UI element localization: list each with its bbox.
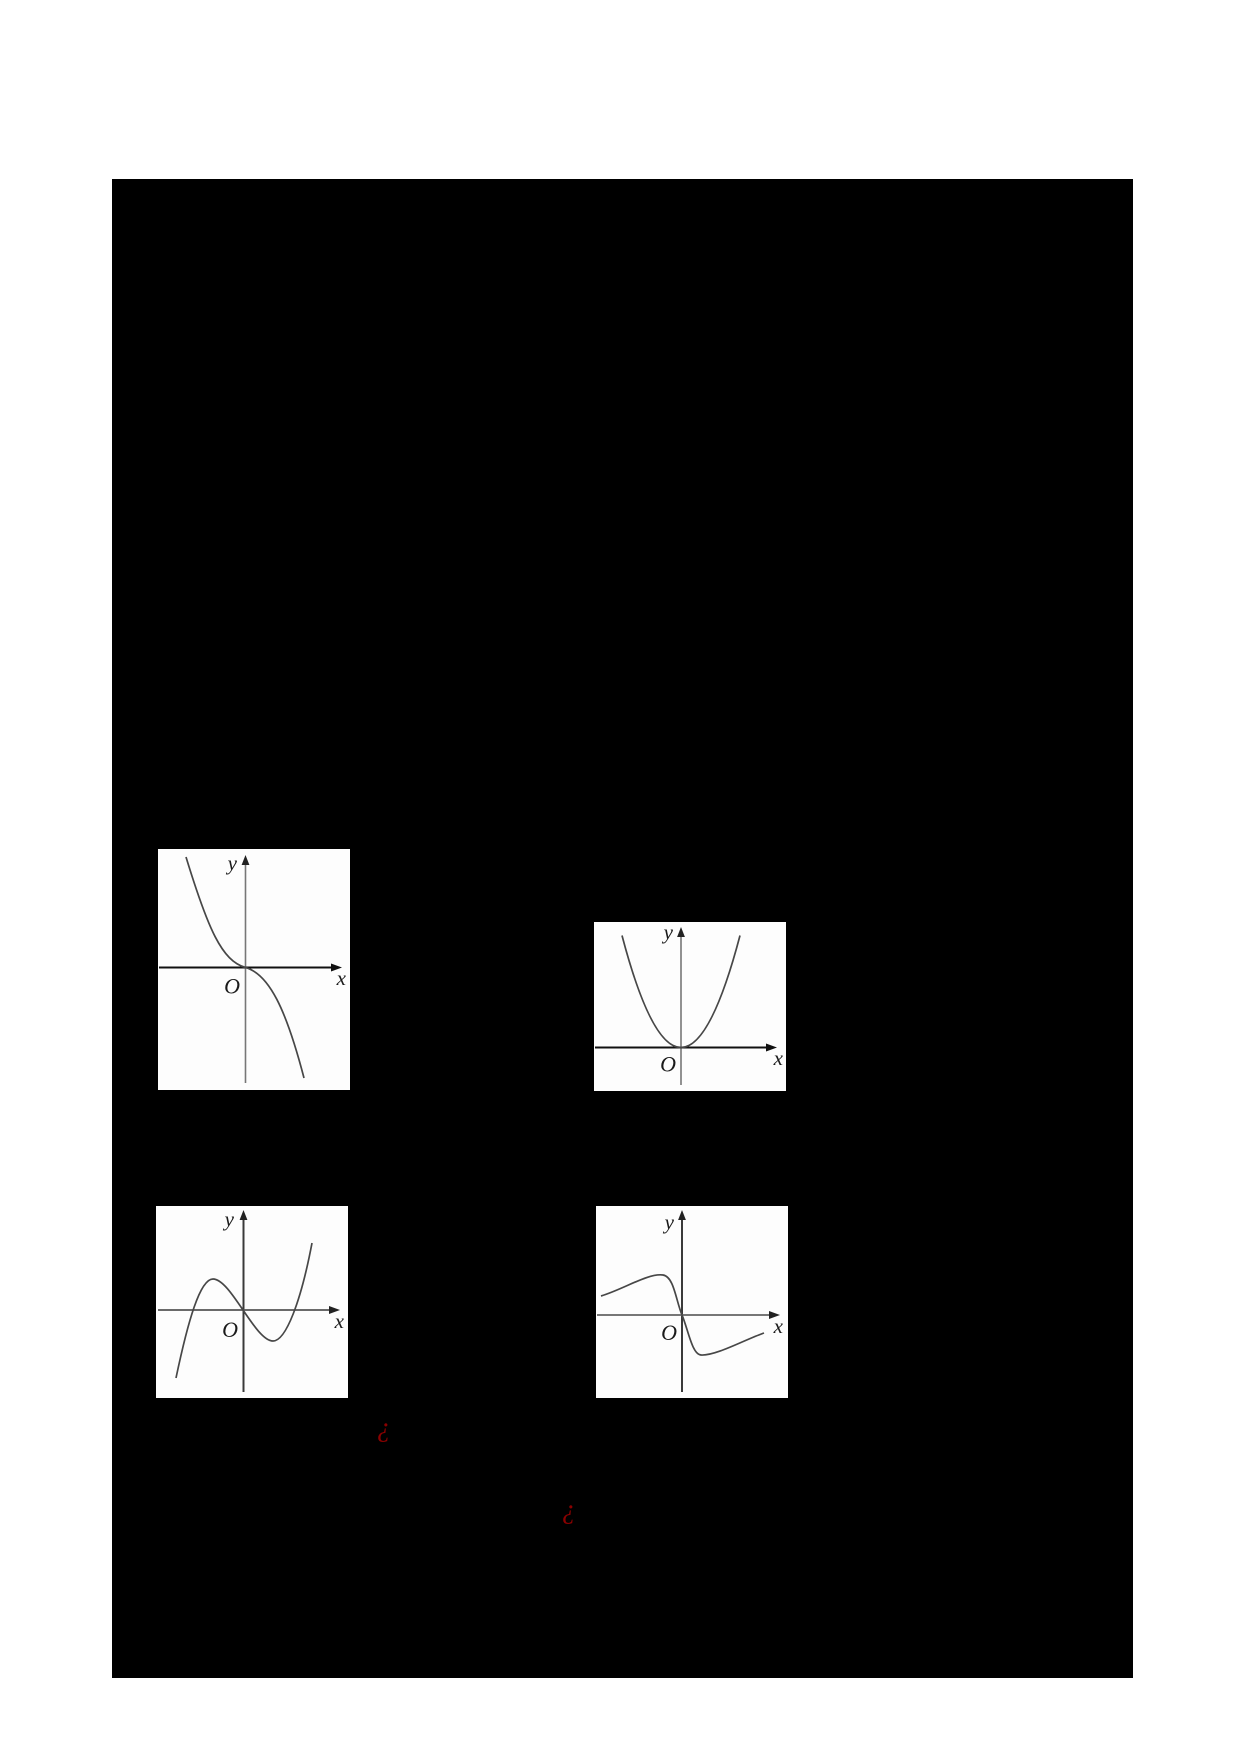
red inverted question mark 1	[377, 1413, 399, 1441]
curve	[601, 1275, 764, 1355]
graph panel A (top-left): y = -x^3 style curve	[158, 849, 350, 1090]
svg-text:x: x	[773, 1314, 784, 1338]
graph panel D (bottom-right): odd sigmoid-like curve	[596, 1206, 788, 1398]
svg-text:x: x	[334, 1309, 345, 1333]
curve	[186, 857, 304, 1078]
x-axis	[159, 967, 336, 969]
y-axis	[243, 1216, 245, 1392]
x-axis	[158, 1309, 334, 1311]
svg-text:O: O	[660, 1052, 676, 1077]
curve	[622, 936, 740, 1048]
graph panel C (bottom-left): cubic y = x^3 - x	[156, 1206, 348, 1398]
y-axis	[245, 861, 247, 1083]
svg-text:O: O	[222, 1317, 238, 1342]
svg-text:O: O	[224, 974, 240, 999]
svg-text:O: O	[661, 1320, 677, 1345]
svg-text:y: y	[662, 922, 674, 944]
y-axis	[681, 1216, 683, 1392]
big black content block	[112, 179, 1133, 1678]
svg-text:y: y	[226, 851, 238, 875]
graph panel B (top-right): parabola y = x^2	[594, 922, 786, 1091]
svg-text:x: x	[336, 966, 347, 990]
svg-text:y: y	[663, 1210, 675, 1234]
x-axis	[597, 1314, 774, 1316]
svg-text:x: x	[773, 1046, 784, 1070]
curve	[176, 1243, 312, 1378]
svg-text:y: y	[223, 1207, 235, 1231]
red inverted question mark 2	[562, 1495, 584, 1523]
x-axis	[595, 1047, 771, 1049]
y-axis	[680, 934, 682, 1085]
